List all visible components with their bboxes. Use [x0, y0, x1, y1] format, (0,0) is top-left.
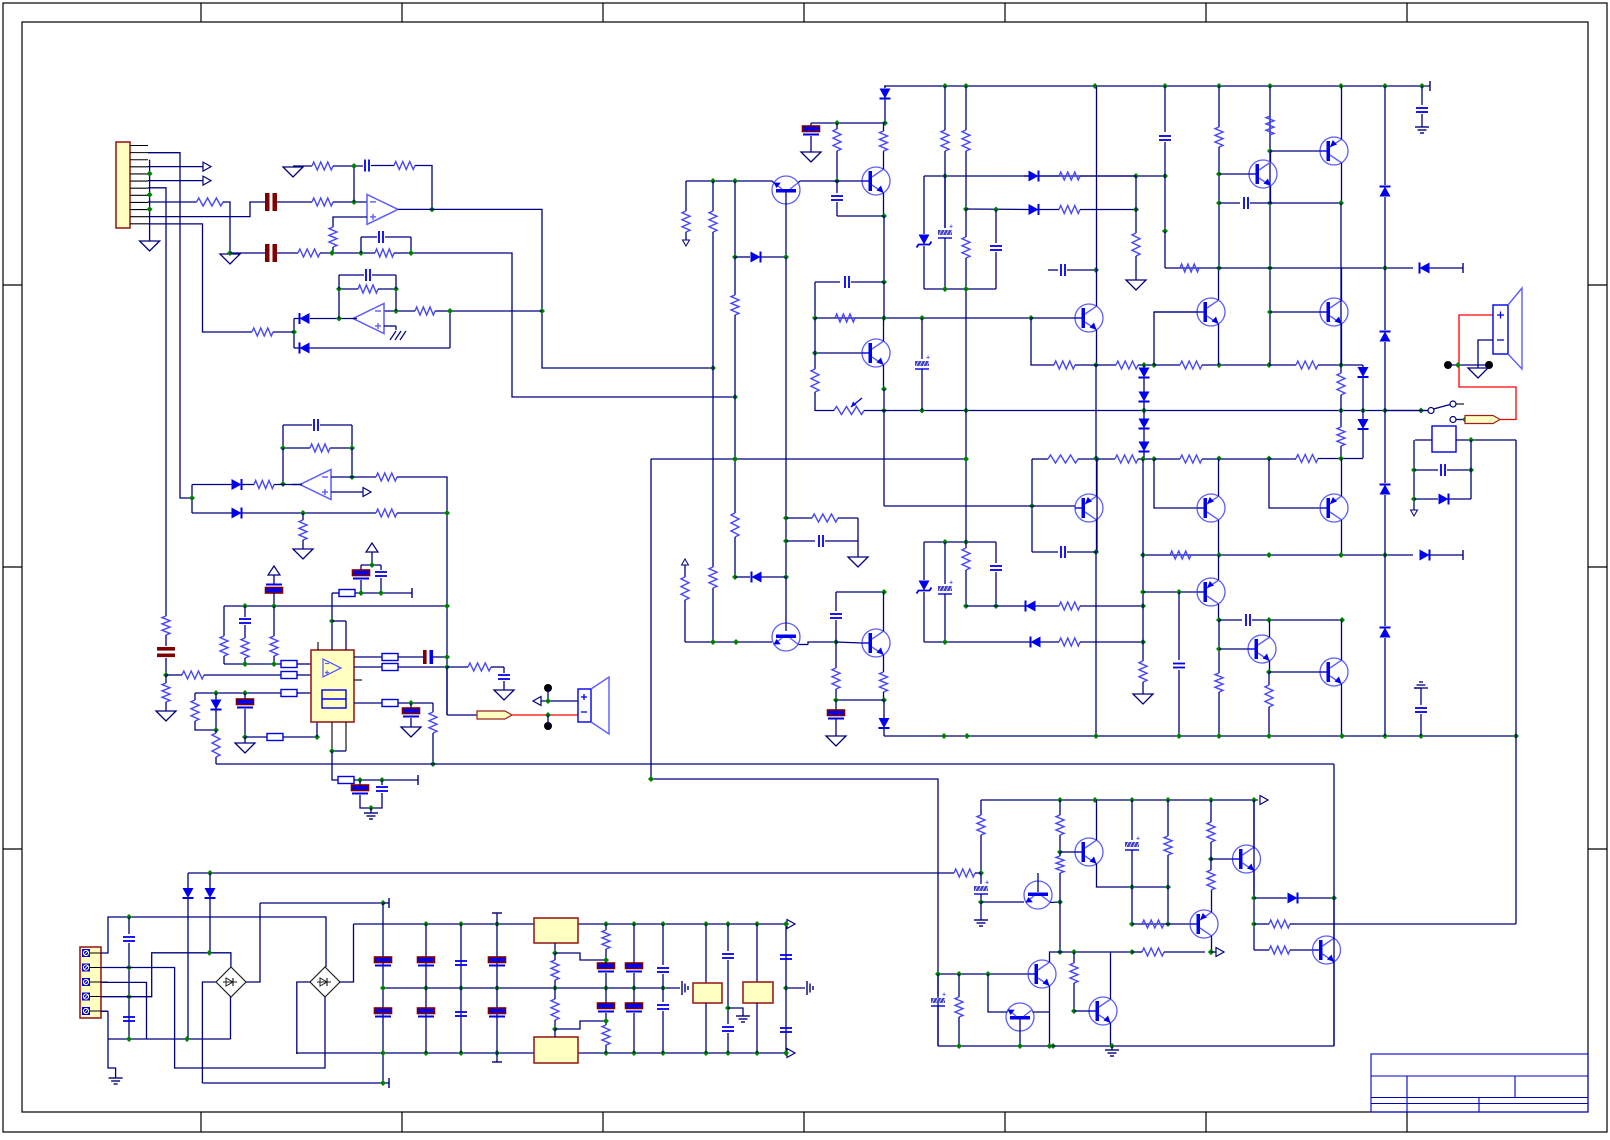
junction reg1: [552, 950, 558, 956]
bus y459: [651, 458, 966, 460]
wire x786 base column: [785, 257, 787, 577]
junction y898 x1334: [1331, 895, 1337, 901]
red wire to speaker1: [512, 714, 578, 716]
resistor R y318: [835, 314, 855, 322]
junction y952 x1211b: [1208, 949, 1214, 955]
resistor R x981: [977, 815, 985, 835]
wire shunt: [302, 513, 304, 520]
junction y209 x966: [963, 206, 969, 212]
junction red y715: [545, 712, 551, 718]
junction x1270 y312: [1267, 309, 1273, 315]
resistor R bias vertical: [329, 227, 337, 247]
terminator y780: [417, 775, 419, 785]
probe pair y365: [1448, 364, 1489, 366]
junction y592 x1143: [1140, 589, 1146, 595]
title block: [1371, 1054, 1588, 1112]
resistor R x713 low: [709, 567, 717, 588]
wire x1154 up to base row: [1154, 312, 1197, 365]
junction y268 x1385: [1382, 265, 1388, 271]
junction y780 x360: [357, 777, 363, 783]
capacitor C y541: [786, 540, 815, 542]
capacitor C x497 bottom electro: [489, 1008, 506, 1014]
resistor R x884 low: [880, 672, 888, 692]
y800 dots: [1057, 797, 1063, 803]
IC op-amp symbol: [323, 659, 341, 677]
wire IC pin3 down: [332, 751, 338, 780]
junction y1039 x129: [126, 1036, 132, 1042]
x1385 column: [1384, 86, 1386, 628]
junction y693 x216: [213, 690, 219, 696]
resistor R row2: [298, 249, 320, 257]
capacitor C series row2: [265, 244, 270, 262]
wire Q4 base drop: [1031, 318, 1033, 365]
junction y318 x884: [881, 315, 887, 321]
resistor R y513: [376, 509, 397, 517]
junction y459 x1341: [1338, 456, 1344, 462]
wire jog reg2 to x606: [555, 1021, 606, 1029]
junction y459 x1096: [1093, 456, 1099, 462]
wire Q2 collector: [883, 151, 885, 169]
junction y459 x1143: [1140, 456, 1146, 462]
vertical wire x166 pin7: [148, 188, 166, 616]
transistor Q15 pnp rotated: [1024, 881, 1052, 909]
rail y736 dots: [941, 733, 947, 739]
transistor Q22 npn bl2: [1089, 997, 1117, 1025]
psu rail mid right segment: [786, 987, 805, 989]
wire bridge2 plus: [339, 924, 354, 982]
feedback tap vertical: [353, 166, 355, 202]
wire Q10 emitter: [1218, 459, 1220, 497]
junction y642 x1143: [1140, 639, 1146, 645]
wire y289: [924, 288, 996, 290]
resistor R oa3 inv: [376, 473, 397, 481]
junction y902 x981: [978, 899, 984, 905]
op-amp U1A: [367, 194, 398, 224]
ground oa2 plus: [384, 325, 396, 327]
terminator y903: [383, 902, 389, 904]
wire Q1 collector to junction: [799, 181, 801, 183]
junction y289 x945: [942, 286, 948, 292]
x1254 column: [1253, 800, 1255, 950]
wire speaker2 minus: [1478, 340, 1493, 368]
resistor RN8 y667: [382, 664, 398, 671]
junction y459 x1269: [1266, 456, 1272, 462]
junction y1039 x187: [184, 1036, 190, 1042]
transistor Q7 npn cascode: [1249, 160, 1277, 188]
wire x166 down: [165, 675, 167, 683]
wire reg2 in: [554, 1029, 556, 1037]
resistor R x966 lower: [965, 459, 967, 548]
wire y552 cap: [1032, 551, 1058, 553]
capacitor C x361 electrolytic: [360, 565, 362, 571]
wire Q4 collector: [1096, 270, 1098, 306]
wire x1269 down to base: [1269, 459, 1320, 509]
junction y411 x923: [919, 408, 925, 414]
transistor Q3 npn: [862, 339, 890, 367]
diode D psu1: [187, 904, 189, 1039]
capacitor C x663 b: [657, 1004, 669, 1006]
resistor RN9 y703: [382, 700, 398, 707]
wire y780: [354, 779, 418, 781]
capacitor C x836 electrolytic: [835, 700, 837, 710]
IC inner block symbol: [322, 690, 346, 708]
wire row1 cap to resistor: [277, 201, 312, 203]
junction y952 x209: [206, 950, 212, 956]
junction x606 y1021: [603, 1018, 609, 1024]
junction y903 x383: [380, 900, 386, 906]
wire Q16 base: [1060, 851, 1075, 853]
wire Q18 collector: [1253, 800, 1255, 847]
wire row2 a: [277, 252, 298, 254]
transistor Q16 npn prot: [1075, 838, 1103, 866]
wire bridge1 bottom: [230, 997, 233, 1039]
vertical x815 b: [814, 318, 816, 353]
junction y365 x1144: [1141, 362, 1147, 368]
resistor R y924a: [1142, 920, 1164, 928]
junction y577 x786: [783, 574, 789, 580]
junction y311: [447, 308, 453, 314]
ground x858: [848, 557, 868, 567]
junction diode feed: [291, 329, 297, 335]
junction y952 x1132: [1129, 949, 1135, 955]
resistor RN4 y737: [245, 736, 267, 738]
wire lower diode east: [243, 512, 377, 514]
transistor Q17 pnp prot: [1190, 910, 1218, 938]
junction y123 x885: [882, 120, 888, 126]
wire Q11 emitter: [1341, 459, 1343, 497]
wire fb a: [339, 288, 358, 290]
wire y318: [815, 317, 1032, 319]
resistor R x735 low: [734, 459, 736, 513]
wire Q5 emitter: [1218, 324, 1220, 365]
junction x129 pin4: [126, 994, 132, 1000]
junction x1219 y203: [1216, 200, 1222, 206]
junction y700 x884: [881, 697, 887, 703]
wire Q10 collector: [1218, 520, 1220, 555]
capacitor C relay: [1414, 469, 1438, 471]
junction y318 x923: [919, 315, 925, 321]
junction y181 x735: [732, 178, 738, 184]
junction row2 gnd: [227, 250, 233, 256]
wire y368 input: [710, 365, 716, 371]
wire Q6 emitter: [1341, 324, 1343, 365]
wire y642: [924, 641, 1030, 643]
transistor Q4 npn input upper: [1075, 304, 1103, 332]
wire input row1: [148, 201, 197, 203]
resistor R y606b: [1059, 602, 1080, 610]
net flag OUT1: [477, 711, 512, 719]
wire Q1 emitter: [772, 181, 774, 183]
wire fb3: [283, 447, 310, 449]
junction inv x396: [393, 308, 399, 314]
capacitor C x938 hatched: [937, 974, 939, 996]
wire y311 resistor to node: [435, 310, 450, 312]
resistor RN5 y780: [338, 777, 354, 784]
wire y917: [101, 917, 326, 967]
connector J1: [116, 142, 130, 228]
resistor R y924b: [1254, 923, 1269, 925]
psu rail top y924: [354, 923, 535, 925]
capacitor C x923 hatched: [921, 318, 923, 359]
terminator x383 bottom: [383, 1082, 389, 1084]
bridge rectifier B2: [310, 967, 340, 997]
wire oa3 plus port: [331, 491, 363, 493]
diode D y209: [1029, 204, 1039, 215]
column x786: [785, 924, 787, 1053]
wire pin12 to lower-left resistor: [148, 224, 252, 332]
junction y924 x1168: [1165, 921, 1171, 927]
capacitor C x1422 top: [1421, 86, 1423, 105]
diode D rail x885: [884, 86, 886, 88]
wire Q24 collector: [883, 592, 885, 631]
junction y459 x1097: [1094, 456, 1100, 462]
IC bottom pins: [331, 722, 333, 751]
relay K1 coil: [1432, 426, 1456, 452]
wire Q8 base: [1270, 150, 1320, 152]
vertical x195 branch: [194, 693, 196, 700]
junction y898 x1254: [1251, 895, 1257, 901]
junction y924 x1254: [1251, 921, 1257, 927]
column x757 regulator U7: [756, 924, 758, 982]
junction y365 x1219: [1216, 362, 1222, 368]
wire y779: [651, 779, 938, 1046]
rail y988 dots: [380, 985, 386, 991]
capacitor C x426 top electro: [425, 924, 427, 1053]
wire Q22 emitter: [1110, 1023, 1112, 1046]
wire x1165 corner y268: [1164, 231, 1166, 268]
wire p2 tee: [371, 552, 373, 565]
wire bias to row2: [332, 247, 334, 253]
earth x981: [980, 902, 982, 920]
capacitor C x1132 hatched: [1131, 800, 1133, 840]
transistor Q20 npn bl: [1028, 960, 1056, 988]
port arrow y952: [1211, 951, 1216, 953]
port arrow rail top: [787, 920, 795, 929]
wire Q9 base row y506: [884, 505, 1075, 507]
junction y642 x736: [733, 639, 739, 645]
wire y397 input: [732, 394, 738, 400]
wire Q2 base: [837, 180, 862, 182]
power arrow P1: [268, 566, 280, 575]
junction y620 x1269: [1266, 617, 1272, 623]
op-amp U1B: [353, 304, 384, 334]
vertical x686: [685, 181, 687, 211]
regulator U4: [534, 918, 578, 943]
wire Q7 emitter: [1270, 186, 1272, 203]
junction y620 x1219: [1216, 617, 1222, 623]
diode D psu1 body: [187, 873, 189, 888]
resistor RN6 y593: [332, 592, 339, 594]
wire Q3 emitter: [883, 365, 885, 389]
diode D x884 low: [883, 700, 885, 718]
junction y873 x210: [207, 870, 213, 876]
diode chain x1144: [1143, 365, 1145, 368]
ground x1136: [1126, 280, 1146, 290]
junction x433 bus: [430, 761, 436, 767]
wire Q8 collector: [1341, 86, 1343, 139]
wire lower diode west: [192, 512, 232, 514]
resistor R ladder b: [1096, 364, 1116, 366]
junction y555 x1219: [1216, 552, 1222, 558]
vertical wire x180 pin2: [148, 153, 192, 498]
junction dots on pin bus: [147, 171, 153, 177]
resistor R feedback1a: [312, 162, 333, 170]
lower ladder y458: [1031, 459, 1033, 552]
svg-text:+: +: [949, 224, 953, 231]
diode D oa2 bottom: [300, 343, 310, 354]
wire x1269 column: [1269, 86, 1271, 365]
capacitor C x634 a electro: [626, 963, 643, 969]
top rail y86: [884, 85, 1430, 87]
column x706 regulator U6: [705, 924, 707, 983]
resistor R ladder c: [1154, 364, 1180, 366]
junction y592 x1179: [1176, 589, 1182, 595]
wire x1097 par: [1096, 459, 1098, 552]
capacitor C x1179: [1178, 592, 1180, 660]
resistor R x433: [432, 703, 434, 712]
svg-text:+: +: [1136, 836, 1140, 843]
capacitor C fb3: [283, 424, 312, 426]
junction y365 x1154: [1151, 362, 1157, 368]
column x606: [605, 924, 607, 930]
resistor RN1 y664: [281, 661, 297, 668]
arrow down x686: [683, 240, 690, 246]
junction fb3 right: [349, 445, 355, 451]
junction fb left: [336, 286, 342, 292]
wire y924 base row: [1132, 923, 1190, 925]
junction y209 x996: [993, 207, 999, 213]
resistor RN3 y693: [281, 690, 297, 697]
arrow down x1414: [1411, 510, 1418, 516]
junction y649 x1219: [1216, 646, 1222, 652]
junction y606 x966: [963, 603, 969, 609]
transistor Q14 npn out low2: [1320, 658, 1348, 686]
wire Q4 emitter: [1096, 330, 1098, 365]
diode D x1363 upper2: [1362, 411, 1364, 420]
wire y898 diode: [1254, 897, 1287, 899]
resistor R x1143 low: [1142, 642, 1144, 661]
junction y513 node: [300, 510, 306, 516]
junction x1032 y506: [1029, 503, 1035, 509]
diode D x1385 d: [1379, 626, 1391, 638]
terminator y593: [411, 588, 413, 598]
wire row2 west: [230, 252, 265, 254]
capacitor C p1 electrolytic: [266, 584, 282, 586]
wire Q6 collector: [1341, 268, 1343, 300]
junction y924 x1132: [1129, 921, 1135, 927]
junction y459 x1219: [1216, 456, 1222, 462]
wire row1 to row2 corner: [223, 202, 230, 253]
power arrow P2: [366, 543, 378, 552]
IC top pin 2: [332, 620, 346, 622]
junction x1414 y499: [1411, 496, 1417, 502]
capacitor C x129 top: [128, 917, 130, 934]
junction feedback: [351, 163, 357, 169]
wire Q17 collector: [1211, 936, 1213, 952]
transistor Q2 npn: [862, 167, 890, 195]
diode D psu2: [209, 873, 211, 888]
junction y887 x1132: [1129, 884, 1135, 890]
wire opamp plus input: [333, 217, 367, 227]
resistor R x837: [833, 129, 841, 151]
wire Q9 collector: [1096, 520, 1098, 552]
resistor R x735 mid: [734, 257, 736, 295]
capacitor C x360 electrolytic: [359, 780, 361, 786]
wire x447 to flag: [446, 667, 448, 715]
junction y779 x651: [648, 776, 654, 782]
earth y1046: [1111, 1046, 1113, 1050]
junction y289 x966: [963, 286, 969, 292]
wire switch to flag: [1456, 419, 1465, 421]
terminator y555: [1462, 550, 1464, 560]
wire Q19 emitter: [1333, 962, 1335, 1046]
column x728: [727, 924, 729, 951]
resistor R x966 top: [962, 130, 970, 151]
wire x858 to ground: [857, 518, 859, 557]
wire bridge1 plus: [246, 903, 260, 982]
psu rail bottom y1053: [296, 1052, 787, 1054]
resistor R y873: [954, 869, 975, 877]
vertical x713 long: [712, 181, 714, 211]
wire y123: [811, 122, 885, 124]
capacitor C x461 top: [460, 924, 462, 1053]
wire Q22 collector: [1110, 952, 1112, 999]
junction mix node: [539, 308, 545, 314]
diode D y898: [1288, 893, 1298, 904]
diode D y642: [1031, 637, 1041, 648]
rail y924 dots: [423, 921, 429, 927]
junction x1219 y174: [1216, 171, 1222, 177]
junction reg2: [552, 1026, 558, 1032]
transistor Q13 npn out low: [1248, 635, 1276, 663]
junction x1414 y470: [1411, 467, 1417, 473]
earth ground y813: [370, 808, 372, 813]
resistor R feedback1b: [394, 162, 415, 170]
wire rail to switch: [1385, 410, 1428, 412]
junction x216 y730: [213, 727, 219, 733]
capacitor C series row1: [265, 193, 270, 211]
capacitor C x383 top electro: [375, 957, 392, 963]
wire x1060 down: [1059, 902, 1061, 952]
bus y606: [224, 605, 447, 607]
svg-text:+: +: [942, 992, 946, 999]
junction y737 right: [314, 734, 320, 740]
junction y693 x245: [242, 690, 248, 696]
relay snubber right leg: [1470, 440, 1472, 499]
earth mid rail: [681, 981, 683, 995]
junction x1270 y203: [1267, 200, 1273, 206]
capacitor C feedback1: [364, 160, 366, 172]
column x497 with stubs: [496, 913, 498, 1062]
feedback loop oa2: [338, 289, 340, 319]
resistor R ladder d: [1269, 364, 1296, 366]
junction y642 x945: [942, 639, 948, 645]
wire x1132 down: [1131, 887, 1133, 924]
wire pin2 AC loop: [101, 968, 325, 1069]
IC out row y667: [354, 666, 382, 668]
junction x1270 y268: [1267, 265, 1273, 271]
relay snubber left leg: [1413, 440, 1415, 510]
resistor R x815 low: [814, 353, 816, 369]
capacitor C x945 hatched upper: [944, 176, 946, 228]
diode D y268: [1420, 263, 1430, 274]
wire Q11 collector: [1341, 520, 1343, 555]
junction y592 x884: [881, 589, 887, 595]
junction y411 x1363: [1360, 408, 1366, 414]
resistor R y667 east: [468, 663, 491, 671]
ground x411: [401, 727, 421, 737]
ground x504: [494, 690, 514, 700]
